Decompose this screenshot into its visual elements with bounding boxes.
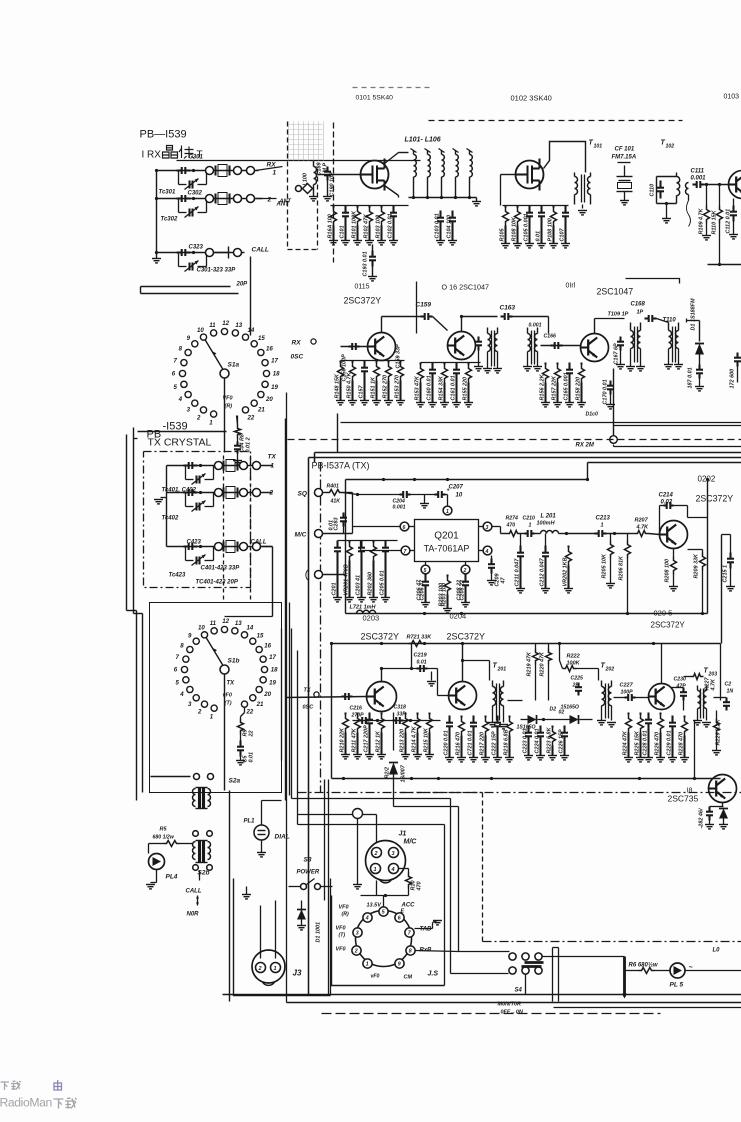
svg-text:15: 15: [258, 335, 265, 342]
wire Q204 base drop: [437, 669, 439, 696]
wire R6 to PL5: [655, 970, 670, 972]
svg-text:C230: C230: [674, 677, 687, 683]
resistor R101 100K: [356, 206, 358, 208]
svg-text:CM: CM: [404, 975, 413, 981]
svg-text:10: 10: [197, 327, 204, 334]
switch S1b contact 17: [260, 656, 266, 662]
resistor R109: [706, 185, 708, 206]
capacitor series row2: [177, 197, 182, 199]
wire if link2: [462, 316, 498, 318]
wire dashdot mid boundary: [298, 792, 741, 794]
connector pin TX row3a: [215, 543, 223, 551]
resistor VR202 1KB: [567, 546, 569, 548]
capacitor C216 series: [342, 695, 346, 697]
wire feedback row: [353, 720, 441, 722]
resistor R226 470: [659, 713, 661, 715]
svg-text:2: 2: [196, 414, 201, 421]
capacitor C231: [714, 697, 727, 699]
transformer T203: [697, 686, 699, 691]
capacitor C163 series: [501, 315, 505, 317]
switch S1a contact 9: [192, 341, 198, 347]
svg-text:RX: RX: [292, 340, 302, 347]
wire D1 top: [687, 320, 700, 322]
switch S1a contact 12: [221, 328, 227, 334]
svg-text:1: 1: [274, 966, 277, 972]
capacitor C5: [239, 741, 241, 747]
svg-text:C225: C225: [571, 676, 584, 682]
svg-text:201: 201: [497, 667, 507, 673]
wire driver left edge: [331, 644, 333, 779]
svg-text:C229 0.01: C229 0.01: [667, 730, 673, 755]
switch S1b contact 21: [250, 695, 256, 701]
svg-text:VR201 470B: VR201 470B: [344, 564, 350, 595]
wire Q115 base: [341, 346, 368, 348]
wire if signal row: [382, 316, 421, 318]
wire CALL down: [250, 257, 252, 336]
svg-text:4: 4: [179, 691, 184, 698]
ground C5: [236, 760, 245, 762]
svg-text:C201: C201: [332, 583, 338, 596]
svg-text:9: 9: [398, 962, 401, 968]
svg-text:L721 1mH: L721 1mH: [350, 605, 377, 611]
switch S1a contact 2: [200, 407, 206, 413]
svg-text:2SC372Y: 2SC372Y: [361, 632, 400, 642]
capacitor C226 15P: [563, 726, 565, 727]
capacitor C112: [733, 199, 735, 206]
switch S1b contact 4: [187, 686, 193, 692]
capacitor C209: [491, 556, 493, 559]
svg-text:0103: 0103: [724, 94, 740, 101]
switch S1b contact 6: [181, 666, 187, 672]
crystal TX row2: [222, 488, 224, 498]
wire TX crystal row2: [167, 492, 273, 494]
crystal filter CF101: [618, 162, 631, 164]
svg-text:R154 33K: R154 33K: [439, 375, 445, 401]
svg-text:C301-323 33P: C301-323 33P: [197, 268, 237, 274]
svg-text:Tc301: Tc301: [159, 190, 176, 196]
svg-text:(R): (R): [225, 404, 233, 410]
svg-text:C216: C216: [350, 706, 363, 712]
svg-text:Tc401, C402: Tc401, C402: [162, 488, 197, 494]
svg-text:1: 1: [273, 170, 277, 177]
resistor R229b: [716, 711, 718, 719]
svg-text:C111: C111: [691, 169, 705, 175]
svg-text:M/C: M/C: [404, 839, 418, 846]
svg-text:C104 100: C104 100: [447, 215, 453, 239]
svg-text:C203 41: C203 41: [356, 575, 362, 596]
box J5 left: [332, 896, 445, 986]
lamp PL5: [670, 963, 685, 978]
svg-text:C401-423 33P: C401-423 33P: [201, 566, 241, 572]
svg-text:13: 13: [235, 322, 242, 329]
switch S1a contact 15: [251, 341, 257, 347]
svg-text:0.001: 0.001: [393, 505, 406, 511]
wire Q203 coupling top: [382, 668, 438, 670]
wire ANT2 out: [256, 198, 277, 200]
svg-text:R151 1K: R151 1K: [371, 376, 377, 399]
connector pin AUX: [315, 571, 323, 579]
svg-text:R102 47K: R102 47K: [364, 213, 370, 239]
resistor R211 47K: [356, 713, 358, 715]
transformer T201: [463, 660, 490, 662]
transformer S2b: [198, 841, 201, 863]
connector pin: [206, 195, 214, 203]
capacitor C721 0.01: [472, 716, 474, 717]
wire TX board left border1: [308, 458, 310, 996]
svg-text:19: 19: [271, 384, 278, 391]
svg-text:12: 12: [222, 618, 229, 625]
svg-text:CALL: CALL: [186, 889, 202, 895]
capacitor C104 100: [451, 211, 453, 212]
wire dashed antenna box left: [287, 122, 289, 250]
svg-text:2: 2: [258, 966, 262, 972]
svg-text:0.001: 0.001: [529, 323, 542, 329]
capacitor C160 0.01: [431, 363, 433, 364]
resistor R274: [507, 531, 521, 537]
svg-text:R216 470: R216 470: [456, 732, 462, 756]
svg-text:M/C: M/C: [295, 532, 307, 539]
svg-text:C223 0.01: C223 0.01: [523, 728, 529, 753]
switch S1a contact 1: [211, 411, 217, 417]
svg-text:R155 220: R155 220: [463, 377, 469, 401]
svg-text:C193 0.01: C193 0.01: [363, 251, 369, 276]
resistor R223 6.8K: [551, 726, 553, 728]
svg-text:C167 6P: C167 6P: [614, 343, 620, 365]
wire bottom bus3: [554, 1007, 741, 1009]
lamp PL4: [149, 854, 165, 870]
resistor R220: [548, 644, 550, 649]
IF transformer T107: [487, 328, 489, 334]
svg-text:13: 13: [235, 620, 242, 627]
coil L721: [357, 610, 376, 613]
wire Q735 base: [709, 788, 713, 790]
wire dashed antenna box bottom: [288, 249, 318, 251]
wire S1a rotor down: [224, 379, 226, 421]
connector pin MIC: [315, 530, 323, 538]
wire top bus drop left: [345, 480, 347, 614]
svg-text:S4: S4: [515, 988, 523, 994]
switch S1b contact 14: [241, 632, 247, 638]
svg-text:T110: T110: [663, 318, 677, 324]
svg-text:1: 1: [529, 523, 532, 529]
svg-text:C213: C213: [596, 516, 611, 522]
svg-text:15165O: 15165O: [561, 705, 579, 711]
svg-text:C318: C318: [394, 705, 407, 711]
svg-text:VF0: VF0: [336, 926, 346, 932]
switch S1a contact 7: [181, 360, 187, 366]
transistor Q202: [660, 521, 688, 549]
svg-text:5: 5: [424, 568, 427, 574]
resistor R155 220: [467, 363, 469, 365]
svg-text:C159: C159: [416, 302, 432, 309]
resistor R401: [323, 492, 327, 494]
capacitor C161 0.01: [455, 363, 457, 364]
svg-text:19: 19: [269, 679, 276, 686]
crystal TX row1: [222, 461, 224, 471]
svg-text:TX: TX: [227, 681, 236, 687]
svg-text:R103 100: R103 100: [376, 215, 382, 239]
svg-text:16: 16: [266, 345, 273, 352]
connector pin: [247, 195, 255, 203]
svg-text:R105: R105: [500, 228, 506, 242]
wire diode feed: [393, 780, 395, 807]
svg-text:C170 0.01: C170 0.01: [603, 379, 609, 404]
wire bottom right top section: [708, 264, 741, 266]
capacitor C210: [521, 533, 525, 535]
capacitor series TX row3: [184, 545, 189, 547]
transistor Q115: [368, 333, 396, 361]
svg-text:R228 470: R228 470: [679, 732, 685, 756]
svg-text:R210 22K: R210 22K: [340, 727, 346, 753]
connector J5 pin 9: [395, 959, 404, 968]
svg-text:(T): (T): [339, 933, 346, 939]
svg-text:R153 270: R153 270: [395, 375, 401, 399]
svg-text:2SC1047: 2SC1047: [597, 287, 634, 297]
resistor R219: [535, 644, 537, 649]
svg-text:3: 3: [392, 851, 395, 857]
switch S1b contact 13: [232, 628, 238, 634]
svg-text:47P: 47P: [676, 684, 687, 690]
svg-text:11: 11: [209, 322, 216, 329]
wire Q102 top loop: [544, 142, 586, 173]
svg-text:6: 6: [174, 667, 178, 674]
switch S2a contact2: [208, 774, 214, 780]
capacitor C227 series: [625, 696, 629, 698]
svg-text:2P: 2P: [572, 683, 580, 689]
switch S1b contact 19: [260, 677, 266, 683]
svg-text:0115: 0115: [355, 284, 370, 291]
wire left bus a: [281, 629, 283, 761]
svg-text:101: 101: [594, 144, 603, 150]
coil T102 secondary: [686, 183, 689, 195]
svg-text:172 600: 172 600: [730, 369, 736, 389]
svg-text:0.02: 0.02: [661, 500, 673, 506]
capacitor series row3: [177, 251, 182, 253]
svg-text:2: 2: [463, 568, 467, 574]
box J3 area: [234, 879, 331, 996]
svg-text:10: 10: [198, 625, 205, 632]
svg-text:0FF↔0N: 0FF↔0N: [501, 1010, 524, 1016]
resistor R217 220: [484, 716, 486, 718]
svg-text:6: 6: [398, 916, 401, 922]
wire Q101 drain to coils: [385, 153, 399, 164]
svg-text:C165 0.001: C165 0.001: [564, 372, 570, 400]
svg-text:C212 0.047: C212 0.047: [540, 557, 546, 586]
switch S1b contact 1: [211, 705, 217, 711]
capacitor C230: [671, 687, 684, 689]
resistor R203 100: [446, 575, 448, 577]
svg-text:R226 470: R226 470: [655, 732, 661, 756]
wire R5 down: [148, 844, 150, 854]
switch S2b pins: [193, 831, 199, 837]
ground PL4: [156, 870, 158, 883]
wire left bus RX crystal: [156, 171, 158, 253]
svg-text:Tc302: Tc302: [161, 217, 178, 223]
connector J5 pin 8: [406, 946, 415, 955]
wire J5 box right: [444, 825, 446, 986]
switch S1a contact 17: [262, 360, 268, 366]
svg-text:8: 8: [179, 345, 183, 352]
IF transformer T108: [527, 328, 529, 334]
svg-text:R209 33K: R209 33K: [694, 553, 700, 579]
capacitor C213: [595, 532, 599, 534]
resistor R215 10K: [428, 713, 430, 715]
svg-text:TX CRYSTAL: TX CRYSTAL: [148, 437, 212, 449]
resistor R110: [719, 185, 721, 206]
wire bus x458: [458, 807, 460, 952]
svg-text:7: 7: [174, 358, 178, 365]
svg-text:L 201: L 201: [541, 514, 557, 520]
wire coil bank bottom bus: [409, 197, 477, 199]
resistor R16A 100: [332, 206, 334, 208]
wire PL5 out: [685, 970, 741, 972]
svg-text:470: 470: [506, 523, 516, 529]
resistor R228 470: [683, 716, 685, 718]
connector J5 pin 5: [379, 907, 388, 916]
wire S4 housing: [553, 947, 559, 949]
wire S1b c22 down: [244, 708, 246, 713]
capacitor C04: [236, 442, 238, 446]
wire driver bottom bus: [332, 778, 721, 780]
diode D1: [699, 321, 701, 342]
wire bias bus Q115: [341, 360, 405, 362]
node mic shield: [353, 809, 363, 819]
box TX crystal dashdot: [144, 452, 251, 588]
svg-text:C160 0.01: C160 0.01: [427, 375, 433, 400]
resistor VR201 470B: [348, 541, 350, 543]
trimmer capacitor row1: [178, 171, 180, 185]
wire Q117 collector: [594, 319, 596, 334]
wire left bus b: [286, 393, 288, 1003]
capacitor C215: [722, 534, 731, 536]
capacitor C105 0.001: [528, 206, 530, 207]
svg-text:O 16 2SC1047: O 16 2SC1047: [442, 283, 490, 292]
capacitor series TX row1: [184, 464, 189, 466]
capacitor C224 0.01: [539, 726, 541, 727]
svg-text:21: 21: [257, 406, 265, 413]
switch S1b contact 8: [187, 646, 193, 652]
transistor Q204: [449, 682, 477, 710]
svg-text:R158 220: R158 220: [576, 377, 582, 401]
wire Q204 collector: [462, 644, 464, 682]
svg-text:47: 47: [501, 576, 507, 584]
svg-text:R213 220: R213 220: [400, 729, 406, 753]
svg-text:0204: 0204: [450, 612, 467, 621]
box S1b outer: [150, 603, 282, 793]
svg-text:vF0: vF0: [371, 974, 380, 980]
svg-text:2: 2: [374, 851, 378, 857]
transistor Q116: [448, 332, 476, 360]
capacitor C214: [659, 506, 661, 535]
resistor R10: [399, 868, 409, 870]
svg-text:2: 2: [197, 709, 202, 716]
svg-text:4: 4: [178, 396, 183, 403]
zener D282: [719, 809, 728, 819]
transistor Q205: [649, 684, 675, 710]
wire Q203 collector: [381, 669, 383, 683]
svg-text:C168: C168: [631, 302, 646, 308]
svg-text:R220 47K: R220 47K: [540, 651, 546, 677]
wire SQ to board: [343, 492, 353, 494]
connector pin TX row2c: [253, 489, 261, 497]
switch S1a contact 3: [192, 400, 198, 406]
svg-text:C217 220P: C217 220P: [364, 725, 370, 753]
resistor R6: [625, 970, 639, 972]
svg-text:R222: R222: [567, 654, 580, 660]
transformer T102 tank: [656, 177, 658, 204]
capacitor C102 0.01: [392, 206, 394, 207]
resistor R102 47K: [368, 206, 370, 208]
wire call stub: [215, 252, 229, 254]
svg-text:C215 1: C215 1: [723, 565, 729, 583]
trimmer capacitor TX row3: [185, 547, 187, 561]
svg-text:PL4: PL4: [166, 874, 178, 881]
svg-text:SQ: SQ: [298, 491, 307, 498]
svg-text:21: 21: [256, 701, 264, 708]
svg-text:PL1: PL1: [244, 819, 256, 825]
wire Q101 source down: [385, 186, 399, 196]
capacitor C159 series: [421, 315, 425, 317]
wire diode row: [521, 719, 528, 721]
svg-text:5: 5: [174, 384, 178, 391]
svg-text:R152 270: R152 270: [383, 375, 389, 399]
svg-text:D1 1S188FM: D1 1S188FM: [691, 298, 697, 331]
resistor R148 15K: [339, 361, 341, 363]
switch S1a contact 19: [262, 381, 268, 387]
svg-text:1S/007: 1S/007: [401, 764, 407, 782]
resistor R153 47K: [419, 363, 421, 365]
IC Q201 box: [415, 520, 479, 562]
connector pin TX row1b: [240, 462, 248, 470]
svg-text:TAB: TAB: [420, 927, 433, 933]
resistor R214 4.7K: [416, 713, 418, 715]
wire c204 to c207: [411, 494, 435, 496]
svg-text:R203 100: R203 100: [439, 583, 445, 607]
wire RX 2M dashed: [288, 439, 741, 441]
connector pin: [206, 167, 214, 175]
coil L102: [427, 151, 429, 155]
switch S1b contact 5: [183, 677, 189, 683]
svg-text:22: 22: [249, 730, 255, 737]
svg-text:1: 1: [271, 463, 275, 470]
node RX2M: [610, 436, 618, 444]
capacitor C229 0.01: [671, 716, 673, 717]
svg-text:TC401-423 20P: TC401-423 20P: [196, 580, 239, 586]
wire Q202 collector right: [688, 517, 708, 519]
capacitor C223 0.01: [527, 726, 529, 727]
svg-text:R101 100K: R101 100K: [352, 210, 358, 239]
wire dashed shield top: [429, 120, 683, 122]
diode D202b: [570, 715, 579, 724]
node osc: [311, 339, 316, 344]
svg-text:R214 4.7K: R214 4.7K: [412, 725, 418, 752]
svg-text:VF0: VF0: [336, 947, 346, 953]
resistor P108 100: [552, 206, 554, 208]
capacitor C170: [609, 381, 611, 386]
connector J5 pin 3: [353, 928, 362, 937]
wire Q116 collector: [461, 317, 463, 332]
crystal TX row3: [222, 542, 224, 552]
wire RX1 out: [256, 167, 283, 171]
capacitor C165 0.001: [568, 363, 570, 364]
connector pin: [234, 195, 242, 203]
wire audio bottom bus: [346, 613, 708, 615]
coil L105: [469, 151, 471, 155]
wire PL1 drop: [261, 801, 263, 825]
capacitor C203 41: [360, 541, 362, 542]
wire dash-dot inner left: [320, 463, 322, 793]
pin5 Q201: [421, 565, 430, 574]
